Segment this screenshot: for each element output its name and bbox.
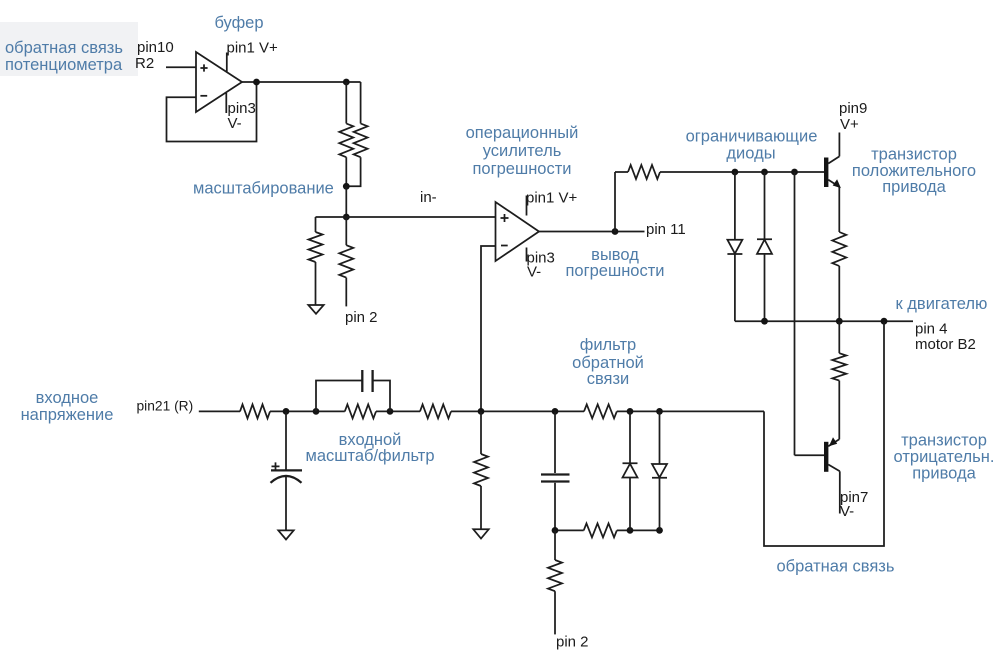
wire Q1 emitter resistor to motor line bbox=[838, 266, 840, 321]
wire bottom pin2 resistor top lead bbox=[554, 530, 556, 560]
wire D4 bottom lead bbox=[659, 478, 661, 531]
ground symbol left branch bbox=[308, 305, 323, 314]
node negative base branch bbox=[791, 169, 798, 176]
wire D4 top lead bbox=[659, 411, 661, 464]
svg-text:привода: привода bbox=[912, 465, 976, 483]
node bypass cap left bbox=[313, 408, 320, 415]
diode D4 feedback right bbox=[652, 464, 667, 478]
capacitor C1 curved plate bbox=[271, 476, 302, 483]
svg-text:буфер: буфер bbox=[214, 14, 263, 32]
svg-text:motor B2: motor B2 bbox=[915, 336, 976, 353]
node Q1 emitter on motor line bbox=[836, 318, 843, 325]
resistor left branch to ground bbox=[309, 232, 323, 262]
wire U1 feedback loop bbox=[167, 82, 257, 142]
node C3 bottom junction bbox=[552, 527, 559, 534]
wire left branch horizontal bbox=[316, 216, 347, 218]
resistor feedback filter top bbox=[584, 404, 617, 418]
svg-text:потенциометра: потенциометра bbox=[5, 56, 123, 74]
wire motor line to Q2 resistor bbox=[838, 321, 840, 353]
resistor inverting node to ground bbox=[474, 454, 488, 486]
resistor input to summing node bbox=[420, 404, 451, 418]
wire D2 bottom lead bbox=[764, 254, 766, 321]
wire scaling node down bbox=[345, 186, 347, 217]
node D3 bottom bbox=[627, 527, 634, 534]
wire Q1 pin9 V+ collector lead bbox=[838, 133, 840, 157]
wire lower filter line right bbox=[617, 529, 660, 531]
wire scaling right resistor top lead bbox=[360, 82, 362, 124]
transistor Q2 base bar bbox=[824, 442, 828, 472]
svg-text:связи: связи bbox=[587, 370, 630, 388]
wire C3 top lead bbox=[554, 411, 556, 473]
wire pin2 branch top lead bbox=[345, 217, 347, 245]
transistor Q2 emitter diagonal with arrow bbox=[828, 439, 839, 446]
svg-text:масштабирование: масштабирование bbox=[193, 180, 334, 198]
wire input line segment bbox=[270, 410, 345, 412]
transistor Q1 base bar bbox=[824, 158, 828, 188]
svg-text:усилитель: усилитель bbox=[483, 142, 562, 160]
node diode D4 top bbox=[656, 408, 663, 415]
wire filter line to feedback corner bbox=[617, 410, 764, 412]
svg-text:R2: R2 bbox=[135, 55, 154, 72]
wire C2 right riser bbox=[373, 381, 390, 412]
svg-text:pin1 V+: pin1 V+ bbox=[526, 190, 578, 207]
op-amp U1 plus input symbol bbox=[200, 64, 207, 71]
wire C1 top lead bbox=[285, 411, 287, 469]
svg-text:обратная связь: обратная связь bbox=[777, 558, 895, 576]
svg-text:pin 2: pin 2 bbox=[556, 634, 589, 651]
wire scaling left resistor top lead bbox=[345, 82, 347, 124]
wire D2 top lead bbox=[764, 172, 766, 239]
transistor Q1 collector diagonal bbox=[828, 156, 839, 163]
wire error output riser bbox=[614, 172, 616, 232]
wire lower filter line left bbox=[555, 529, 584, 531]
op-amp U1 buffer triangle bbox=[196, 52, 242, 112]
node U1 output junction bbox=[253, 79, 260, 86]
svg-text:V-: V- bbox=[840, 503, 854, 520]
transistor Q1 emitter diagonal with arrow bbox=[828, 180, 839, 187]
wire pin10 input to U1 + bbox=[166, 66, 196, 68]
ground symbol inverting leg bbox=[473, 529, 488, 538]
svg-text:обратная связь: обратная связь bbox=[5, 39, 123, 57]
svg-text:V+: V+ bbox=[840, 116, 859, 133]
node diode D1 top bbox=[732, 169, 739, 176]
svg-text:транзистор: транзистор bbox=[871, 146, 957, 164]
capacitor C1 electrolytic plus plate bbox=[271, 469, 302, 471]
op-amp U2 plus input symbol bbox=[501, 214, 509, 222]
op-amp U2 minus input symbol bbox=[501, 245, 508, 247]
diode D3 feedback left bbox=[623, 463, 638, 477]
resistor input series bbox=[240, 404, 270, 418]
node bypass cap right bbox=[387, 408, 394, 415]
svg-text:к двигателю: к двигателю bbox=[896, 295, 988, 313]
resistor Q1 emitter bbox=[832, 232, 846, 266]
wire D1 bottom lead bbox=[734, 254, 736, 321]
capacitor C2 plates bbox=[362, 370, 372, 392]
wire Q1 emitter lead bbox=[838, 187, 840, 232]
wire summing line bbox=[451, 410, 584, 412]
diode D1 limiting left bbox=[727, 240, 742, 254]
wire left branch resistor bottom lead bbox=[315, 262, 317, 305]
resistor scaling right bbox=[354, 124, 368, 158]
svg-text:транзистор: транзистор bbox=[901, 432, 987, 450]
wire D3 top lead bbox=[629, 411, 631, 463]
resistor error output series bbox=[628, 165, 660, 179]
wire Q2 pin7 V- collector lead bbox=[839, 471, 841, 513]
op-amp U2 error amplifier triangle bbox=[496, 202, 540, 261]
wire left branch resistor top lead bbox=[315, 217, 317, 232]
node scaling top junction bbox=[343, 79, 350, 86]
wire pin2 branch bottom lead bbox=[345, 278, 347, 307]
wire U2 pin3 V- stub bbox=[526, 248, 528, 262]
node error amp inverting junction bbox=[478, 408, 485, 415]
node feedback tap on motor line bbox=[881, 318, 888, 325]
node D2 bottom on motor line bbox=[761, 318, 768, 325]
wire inverting node resistor bottom lead bbox=[480, 486, 482, 529]
wire U2 pin1 V+ stub bbox=[526, 196, 528, 216]
wire in- to error amp bbox=[346, 216, 495, 218]
svg-text:pin 11: pin 11 bbox=[646, 221, 686, 238]
svg-text:операционный: операционный bbox=[466, 124, 579, 142]
ground symbol C1 bbox=[278, 530, 293, 539]
svg-text:масштаб/фильтр: масштаб/фильтр bbox=[305, 447, 434, 465]
svg-text:pin 2: pin 2 bbox=[345, 309, 378, 326]
wire U2 inverting input feedback bbox=[481, 246, 496, 411]
wire motor output line pin 4 bbox=[735, 320, 913, 322]
svg-text:входное: входное bbox=[36, 389, 99, 407]
wire U1 pin3 V- stub bbox=[225, 93, 227, 113]
svg-text:погрешности: погрешности bbox=[565, 262, 664, 280]
svg-text:pin9: pin9 bbox=[839, 100, 867, 117]
wire U1 output bbox=[242, 81, 361, 83]
node scaling bottom junction bbox=[343, 183, 350, 190]
wire inverting node resistor top lead bbox=[480, 411, 482, 454]
svg-text:pin 4: pin 4 bbox=[915, 321, 948, 338]
resistor feedback filter bottom bbox=[584, 523, 617, 537]
svg-text:отрицательн.: отрицательн. bbox=[894, 448, 995, 466]
svg-text:привода: привода bbox=[882, 178, 946, 196]
wire scaling left resistor bottom lead bbox=[345, 157, 347, 186]
node electrolytic cap tap bbox=[283, 408, 290, 415]
node D4 bottom bbox=[656, 527, 663, 534]
node diode D3 top bbox=[627, 408, 634, 415]
svg-text:диоды: диоды bbox=[726, 145, 775, 163]
wire bottom pin2 lead bbox=[554, 591, 556, 634]
svg-text:pin10: pin10 bbox=[137, 39, 174, 56]
wire C2 left riser bbox=[316, 381, 362, 412]
svg-text:напряжение: напряжение bbox=[21, 406, 114, 424]
transistor Q2 collector diagonal bbox=[828, 465, 840, 472]
wire U1 pin1 V+ stub bbox=[226, 53, 228, 72]
svg-text:V-: V- bbox=[228, 115, 242, 132]
svg-text:pin21 (R): pin21 (R) bbox=[137, 399, 194, 414]
svg-text:pin1 V+: pin1 V+ bbox=[227, 40, 279, 57]
node filter cap top bbox=[552, 408, 559, 415]
resistor scaling left bbox=[339, 124, 353, 158]
svg-text:погрешности: погрешности bbox=[472, 160, 571, 178]
wire scaling right resistor bottom lead bbox=[346, 157, 360, 186]
svg-text:V-: V- bbox=[527, 264, 541, 281]
resistor bottom pin2 bbox=[548, 560, 562, 591]
resistor Q2 emitter bbox=[832, 353, 846, 380]
wire C1 bottom lead bbox=[285, 476, 287, 530]
diode D2 limiting right bbox=[757, 239, 772, 254]
resistor pin2 branch bbox=[339, 245, 353, 277]
svg-text:in-: in- bbox=[420, 189, 437, 206]
wire negative base vertical bbox=[794, 172, 796, 455]
svg-text:фильтр: фильтр bbox=[580, 336, 636, 354]
node in- junction bbox=[343, 214, 350, 221]
node U2 output junction bbox=[612, 228, 619, 235]
wire feedback loop to input filter bbox=[764, 321, 884, 546]
capacitor C3 plates bbox=[541, 475, 570, 482]
capacitor C1 plus sign bbox=[272, 462, 280, 470]
resistor input scale parallel bbox=[345, 404, 376, 418]
svg-text:ограничивающие: ограничивающие bbox=[686, 128, 818, 146]
wire Q2 base lead bbox=[795, 454, 825, 456]
wire riser to resistor bbox=[615, 171, 628, 173]
wire U2 output pin 11 bbox=[539, 231, 645, 233]
wire D3 bottom lead bbox=[629, 478, 631, 531]
wire D1 top lead bbox=[734, 172, 736, 240]
wire input line segment 2 bbox=[376, 410, 420, 412]
wire input from pin21 bbox=[199, 410, 240, 412]
wire base drive line bbox=[660, 171, 824, 173]
node diode D2 top bbox=[761, 169, 768, 176]
op-amp U1 minus input symbol bbox=[200, 95, 207, 97]
wire Q2 emitter lead bbox=[838, 381, 840, 440]
wire C3 bottom lead bbox=[554, 483, 556, 531]
